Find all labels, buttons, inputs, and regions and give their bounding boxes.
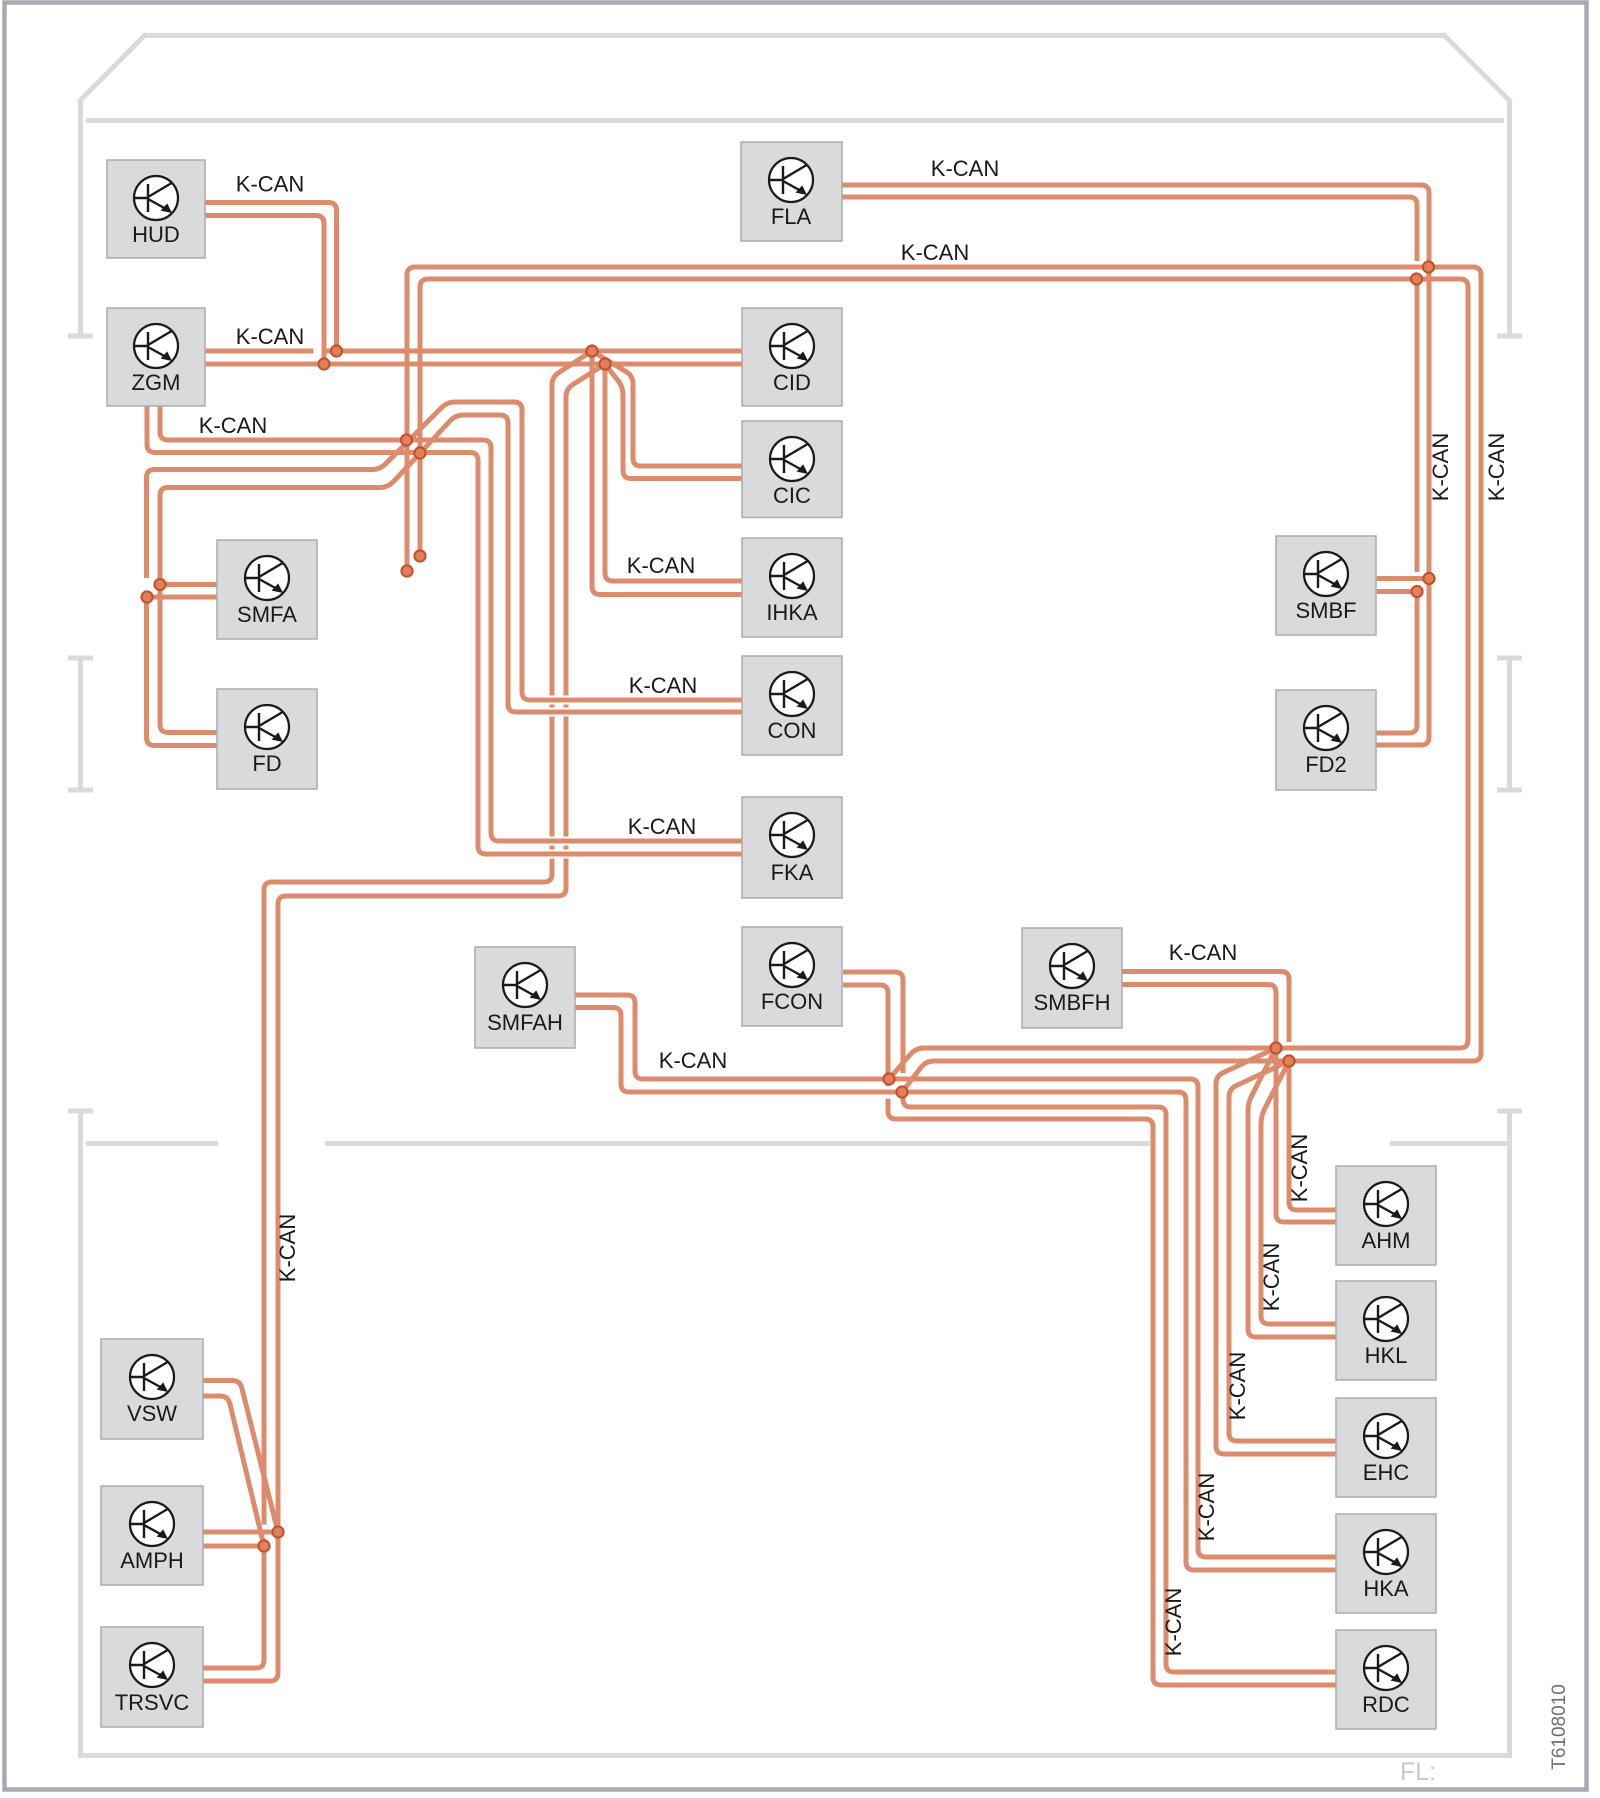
wire HUD K-CAN upper	[205, 203, 337, 352]
wire SMBFH upper to AHM upper	[1122, 972, 1336, 1211]
wire junction to EHC upper	[1229, 1061, 1336, 1441]
node stub end right	[414, 550, 425, 561]
car right side front end cap	[1497, 334, 1522, 339]
ECU FD2	[1276, 690, 1376, 790]
svg-text:K-CAN: K-CAN	[1194, 1473, 1219, 1541]
wire FLA lower to FD2 upper	[842, 197, 1417, 733]
svg-text:K-CAN: K-CAN	[1225, 1352, 1250, 1420]
car right rear cap	[1497, 1109, 1522, 1114]
node SMBF upper tap	[1423, 573, 1434, 584]
wire ZGM-CID K-CAN upper	[205, 349, 742, 354]
ECU RDC	[1336, 1630, 1436, 1729]
wire CON lower to FD upper	[160, 415, 742, 733]
node CID junction lower	[599, 358, 610, 369]
wire AMPH lower	[203, 1544, 264, 1549]
wire ZGM bottom to FKA upper	[160, 406, 742, 841]
wire VSW lower	[203, 1396, 264, 1546]
ECU FD	[217, 689, 317, 789]
node center tap lower	[414, 447, 425, 458]
svg-text:K-CAN: K-CAN	[629, 673, 697, 698]
car right rear side	[1507, 1111, 1512, 1758]
svg-text:SMBF: SMBF	[1295, 598, 1356, 623]
wire SMBF upper	[1376, 576, 1429, 581]
svg-text:TRSVC: TRSVC	[115, 1690, 190, 1715]
ECU SMBFH	[1022, 928, 1122, 1028]
wire VSW upper	[203, 1381, 278, 1533]
svg-text:K-CAN: K-CAN	[1169, 940, 1237, 965]
svg-text:K-CAN: K-CAN	[1484, 433, 1509, 501]
car hood top line	[143, 33, 1446, 38]
ECU TRSVC	[101, 1627, 203, 1727]
ECU FKA	[742, 797, 842, 898]
svg-text:RDC: RDC	[1362, 1692, 1410, 1717]
svg-text:K-CAN: K-CAN	[627, 553, 695, 578]
car rear interior line segments	[86, 1141, 1507, 1146]
ECU SMFA	[217, 540, 317, 639]
node FLA bus tap lower	[1411, 273, 1422, 284]
ECU CIC	[742, 421, 842, 518]
node FLA bus tap upper	[1423, 261, 1434, 272]
wire AMPH upper	[203, 1530, 278, 1535]
ECU EHC	[1336, 1398, 1436, 1497]
wire CON upper to FD lower	[147, 402, 743, 746]
node HUD lower tap	[318, 358, 329, 369]
wire IHKA upper	[592, 351, 742, 595]
ECU VSW	[101, 1339, 203, 1439]
wire FCON lower to RDC lower	[843, 985, 1336, 1685]
car left door bracket	[68, 658, 93, 790]
svg-text:HKA: HKA	[1363, 1576, 1409, 1601]
wire IHKA lower	[605, 364, 742, 581]
svg-text:K-CAN: K-CAN	[1259, 1243, 1284, 1311]
svg-text:IHKA: IHKA	[766, 600, 818, 625]
svg-text:EHC: EHC	[1363, 1460, 1410, 1485]
svg-text:FD2: FD2	[1305, 752, 1347, 777]
ECU CON	[742, 656, 842, 755]
ECU ZGM	[107, 308, 205, 406]
wire SMFA upper	[160, 582, 217, 587]
svg-text:VSW: VSW	[127, 1401, 177, 1426]
wire SMBFH lower to AHM lower	[1122, 985, 1336, 1223]
svg-text:SMFA: SMFA	[237, 602, 297, 627]
svg-text:AHM: AHM	[1362, 1228, 1411, 1253]
wire top bus lower	[420, 279, 1468, 1079]
wire junction to HKL lower	[1248, 1048, 1336, 1337]
car left front diagonal	[79, 34, 147, 102]
wire SMFA lower	[147, 595, 217, 600]
svg-text:K-CAN: K-CAN	[236, 324, 304, 349]
svg-text:SMBFH: SMBFH	[1034, 990, 1111, 1015]
car right side front segment	[1507, 99, 1512, 336]
svg-text:CID: CID	[773, 370, 811, 395]
node stub end left	[401, 565, 412, 576]
wire HUD K-CAN lower	[205, 216, 324, 365]
car left rear side	[78, 1111, 83, 1758]
ECU FCON	[742, 927, 842, 1026]
node FCON junction upper	[883, 1073, 894, 1084]
footer texts	[1400, 1684, 1570, 1786]
wire ZGM-CID K-CAN lower	[205, 362, 742, 367]
node SMBF lower tap	[1411, 586, 1422, 597]
wire SMFAH upper to HKA upper	[575, 995, 1336, 1557]
svg-text:K-CAN: K-CAN	[931, 156, 999, 181]
car right front diagonal	[1443, 34, 1511, 102]
ECU AHM	[1336, 1166, 1436, 1265]
svg-text:K-CAN: K-CAN	[628, 814, 696, 839]
node AMPH upper tap	[272, 1526, 283, 1537]
node FCON junction lower	[896, 1086, 907, 1097]
svg-text:HUD: HUD	[132, 222, 180, 247]
svg-text:CIC: CIC	[773, 483, 811, 508]
svg-text:AMPH: AMPH	[120, 1548, 184, 1573]
ECU HUD	[107, 160, 205, 258]
ECU HKA	[1336, 1514, 1436, 1613]
svg-text:HKL: HKL	[1365, 1343, 1408, 1368]
ECU AMPH	[101, 1486, 203, 1585]
svg-text:K-CAN: K-CAN	[659, 1048, 727, 1073]
ECU SMBF	[1276, 536, 1376, 635]
svg-text:K-CAN: K-CAN	[236, 172, 304, 197]
wire CID junction to rear-left run upper	[203, 351, 592, 1668]
car left side front end cap	[68, 334, 93, 339]
wire CIC lower	[605, 364, 742, 479]
svg-text:FLA: FLA	[771, 204, 812, 229]
svg-text:K-CAN: K-CAN	[275, 1214, 300, 1282]
wire FCON upper to RDC upper	[843, 972, 1336, 1672]
car bottom line	[78, 1753, 1512, 1758]
svg-text:FKA: FKA	[771, 860, 814, 885]
node AMPH lower tap	[258, 1540, 269, 1551]
svg-text:CON: CON	[768, 718, 817, 743]
car windshield line	[86, 118, 1504, 123]
control units	[101, 142, 1436, 1729]
svg-text:ZGM: ZGM	[132, 370, 181, 395]
wire SMBF lower	[1376, 589, 1417, 594]
car left side front segment	[78, 99, 83, 336]
wire SMFAH lower to HKA lower	[575, 1008, 1336, 1571]
node HUD upper tap	[331, 345, 342, 356]
svg-text:K-CAN: K-CAN	[901, 240, 969, 265]
node rear junction lower	[1283, 1055, 1294, 1066]
node center tap upper	[401, 434, 412, 445]
svg-text:FL:: FL:	[1400, 1758, 1436, 1786]
ECU IHKA	[742, 538, 842, 637]
car left rear cap	[68, 1109, 93, 1114]
wire FLA upper to FD2 lower	[842, 185, 1429, 745]
svg-text:T6108010: T6108010	[1549, 1684, 1570, 1770]
node CID junction upper	[586, 345, 597, 356]
wire CID junction to rear-left run lower	[203, 364, 605, 1681]
svg-text:K-CAN: K-CAN	[1161, 1588, 1186, 1656]
ECU FLA	[741, 142, 842, 241]
car right door bracket	[1497, 658, 1522, 790]
ECU CID	[742, 308, 842, 406]
ECU SMFAH	[475, 947, 575, 1048]
svg-text:SMFAH: SMFAH	[487, 1010, 563, 1035]
svg-text:K-CAN: K-CAN	[1428, 433, 1453, 501]
wire ZGM bottom to FKA lower	[147, 406, 742, 854]
svg-text:K-CAN: K-CAN	[1287, 1134, 1312, 1202]
wire CIC upper	[592, 351, 742, 466]
svg-text:K-CAN: K-CAN	[199, 413, 267, 438]
wire junction to HKL upper	[1261, 1061, 1336, 1324]
node SMFA lower tap	[141, 591, 152, 602]
node SMFA upper tap	[154, 579, 165, 590]
bus name labels	[199, 156, 1509, 1656]
ECU HKL	[1336, 1281, 1436, 1380]
node rear junction upper	[1270, 1042, 1281, 1053]
svg-text:FCON: FCON	[761, 989, 823, 1014]
svg-text:FD: FD	[252, 751, 281, 776]
wire junction to EHC lower	[1216, 1048, 1336, 1454]
wire top bus upper (HUD stub to right side)	[407, 267, 1481, 1092]
